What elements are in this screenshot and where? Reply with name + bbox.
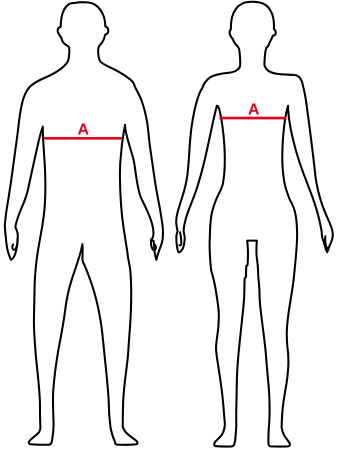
female chest measurement line [220, 117, 287, 120]
svg-text:A: A [78, 121, 90, 138]
male figure outline [5, 2, 163, 445]
female right hand curl [325, 236, 328, 248]
female figure outline [176, 2, 333, 447]
male left hand curl [12, 239, 17, 250]
male right hand curl [151, 239, 156, 250]
male chest measurement line [44, 137, 122, 140]
female left hand curl [179, 232, 181, 245]
svg-text:A: A [248, 101, 260, 118]
